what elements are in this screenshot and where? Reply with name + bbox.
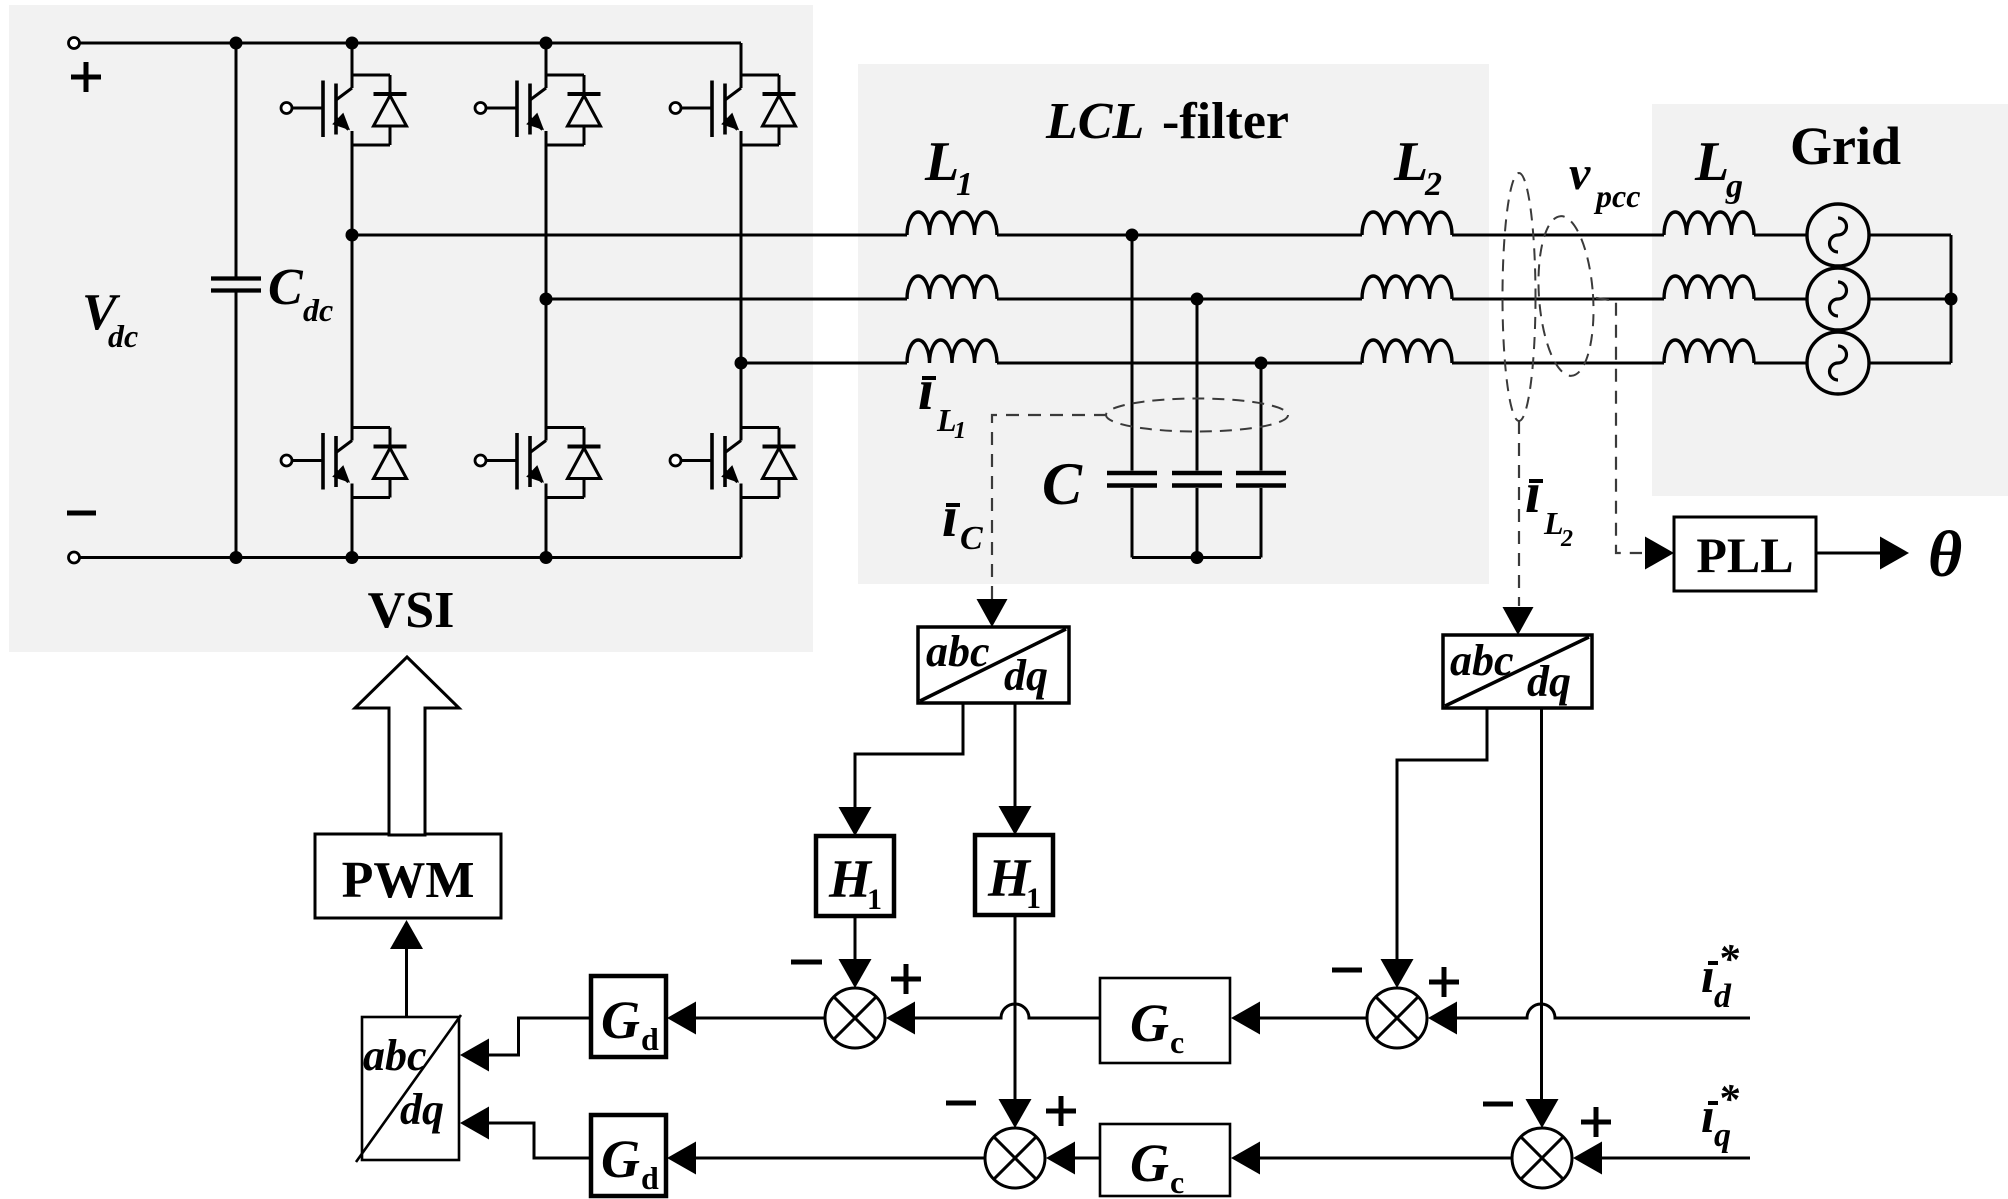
svg-text:ı: ı [942,484,958,549]
svg-text:q: q [1714,1117,1731,1154]
measurement loop iL2 (dashed ellipse) [1503,173,1536,421]
wire U2 output to S3 [1397,708,1487,959]
transistor Q3 (upper IGBT) [670,43,779,137]
node: capacitor bus junction [1191,551,1204,564]
svg-text:v: v [1569,147,1591,200]
node: leg2 bottom bus junction [540,551,553,564]
node: cap tap phase B [1191,293,1204,306]
PLL block [1674,517,1816,591]
wire H1 first to S1 [854,916,857,960]
wire grid phase B to neutral bus [1869,298,1951,301]
svg-text:c: c [1170,1164,1184,1199]
wire emitter of Q4 to bottom bus [351,484,354,558]
summing junction S3 (d-axis outer) [1367,988,1427,1048]
transistor Q4 (lower IGBT) [281,235,390,490]
DC positive terminal [69,38,80,49]
wire phase C: VSI to L1 [741,362,907,365]
svg-text:L: L [924,131,959,193]
svg-text:ı: ı [918,357,934,422]
AC source grid phase A [1807,204,1869,266]
svg-text:dq: dq [1004,651,1048,700]
minus sign [67,511,96,516]
dashed wire iL2 to abc/dq [1518,421,1520,606]
svg-text:dc: dc [303,292,333,328]
sign plus at S2 [1046,1109,1076,1114]
svg-text:1: 1 [954,418,966,444]
svg-text:G: G [601,1129,640,1189]
svg-text:abc: abc [363,1031,427,1080]
svg-text:PLL: PLL [1696,527,1793,583]
sign minus at S3 [1332,968,1362,973]
wire S3 to Gc upper [1260,1017,1367,1020]
wire phase B: L1 to L2 [997,298,1362,301]
wire phase B: L2 to Lg [1452,298,1664,301]
svg-text:abc: abc [926,627,990,676]
VSI region background [9,5,813,652]
transistor Q6 (lower IGBT) [670,363,779,490]
svg-text:-filter: -filter [1162,93,1289,150]
wire U1 output to H1 first [855,703,963,808]
inductor L2 phase C [1362,340,1452,363]
svg-text:pcc: pcc [1593,178,1640,214]
svg-text:ı: ı [1701,947,1715,1003]
svg-text:abc: abc [1450,636,1514,685]
wire S1 to Gd upper [696,1017,824,1020]
block H1 (second) [975,835,1053,915]
transistor Q5 (lower IGBT) [475,299,584,490]
wire Gc upper to S1 [915,1004,1100,1018]
diode D4 (antiparallel, lower) [352,428,407,498]
wire Q3 emitter to phase node [740,131,743,363]
LCL filter region background [858,64,1489,584]
wire H1 second to S2 [1014,915,1017,1099]
svg-text:dq: dq [400,1085,444,1134]
arrow iC into abc/dq [977,599,1008,627]
svg-text:C: C [268,259,304,316]
svg-text:c: c [1170,1024,1184,1060]
svg-text:2: 2 [1560,526,1573,552]
PWM block [315,834,501,918]
diode D3 (antiparallel, upper) [741,75,796,145]
svg-text:1: 1 [867,883,882,916]
inductor L1 phase A [907,212,997,235]
svg-text:1: 1 [1026,882,1041,915]
capacitor C phase C [1236,363,1286,558]
block H1 (first) [816,836,894,916]
wire phase A: L2 to Lg [1452,234,1664,237]
wire U1 output to H1 second [1014,703,1017,807]
svg-text:C: C [1042,451,1083,517]
AC source grid phase C [1807,332,1869,394]
node: Cdc top junction [230,37,243,50]
node: cap tap phase C [1255,357,1268,370]
svg-text:G: G [1130,1133,1169,1193]
wire grid phase C to neutral bus [1869,362,1951,365]
wire emitter of Q5 to bottom bus [545,484,548,558]
block Gc (lower) [1100,1124,1230,1196]
sign plus at S3 [1429,980,1459,985]
svg-text:LCL: LCL [1045,93,1144,150]
svg-text:C: C [960,520,983,557]
transistor Q2 (upper IGBT) [475,43,584,137]
node: cap tap phase A [1126,229,1139,242]
abc/dq block (iL2 transform) U2 [1443,635,1592,708]
wire PLL output [1816,552,1881,555]
wire id* reference line [1457,1004,1750,1018]
node: leg2 top bus junction [540,37,553,50]
svg-text:G: G [601,990,640,1050]
inductor L2 phase A [1362,212,1452,235]
wire Gc lower to S2 [1075,1157,1100,1160]
block arrow PWM to VSI [355,657,459,835]
sign plus at S4 [1581,1120,1611,1125]
arrow vpcc into PLL [1645,537,1674,570]
svg-text:2: 2 [1424,166,1442,203]
inductor L2 phase B [1362,276,1452,299]
capacitor C phase A [1107,235,1157,558]
svg-text:Grid: Grid [1790,116,1901,176]
sign minus at S2 [946,1101,976,1106]
plus sign [71,75,101,80]
node: leg1 bottom bus junction [346,551,359,564]
wire Q1 emitter to phase node [351,131,354,235]
svg-text:d: d [1714,978,1732,1015]
svg-text:θ: θ [1928,518,1962,591]
svg-text:d: d [641,1021,659,1057]
wire U2 output to S4 [1540,708,1543,1099]
node: phase A output [346,229,359,242]
Grid region background [1652,104,2008,496]
svg-text:1: 1 [956,166,973,203]
svg-text:dq: dq [1527,657,1571,706]
summing junction S1 (d-axis inner) [825,988,885,1048]
wire bottom DC bus [80,556,742,559]
wire grid neutral bus [1950,235,1953,363]
diode D5 (antiparallel, lower) [546,428,601,498]
arrow iL2 into abc/dq [1503,607,1534,635]
node: Cdc bottom junction [230,551,243,564]
wire Gd upper to U3 [489,1018,591,1055]
diode D1 (antiparallel, upper) [352,75,407,145]
wire top DC bus [80,42,742,45]
wire phase C: Lg to grid source [1754,362,1807,365]
inductor L1 phase B [907,276,997,299]
wire U3 to PWM [405,949,408,1017]
node: phase C output [735,357,748,370]
measurement loop iC (dashed ellipse around capacitor branches) [1106,399,1288,432]
block Gc (upper) [1100,978,1230,1063]
wire phase B: VSI to L1 [546,298,907,301]
wire grid phase A to neutral bus [1869,234,1951,237]
svg-text:G: G [1130,993,1169,1053]
node: grid neutral junction [1945,293,1958,306]
svg-text:L: L [1694,131,1729,193]
abc/dq block (modulation transform) U3 [356,1015,461,1162]
AC source grid phase B [1807,268,1869,330]
transistor Q1 (upper IGBT) [281,43,390,137]
wire S4 to Gc lower [1260,1157,1511,1160]
sign minus at S4 [1483,1102,1513,1107]
inductor L1 phase C [907,340,997,363]
wire Q2 emitter to phase node [545,131,548,299]
diode D2 (antiparallel, upper) [546,75,601,145]
inductor Lg phase C [1664,340,1754,363]
wire iq* reference line [1602,1157,1750,1160]
sign minus at S1 [791,960,822,965]
svg-text:L: L [1393,131,1428,193]
svg-text:PWM: PWM [342,852,475,909]
wire S2 to Gd lower [696,1157,984,1160]
capacitor C phase B [1172,299,1222,558]
wire phase B: Lg to grid source [1754,298,1807,301]
wire emitter of Q6 to bottom bus [740,484,743,558]
arrow PLL output [1880,537,1909,570]
abc/dq block (iC transform) U1 [918,627,1069,703]
summing junction S4 (q-axis outer) [1512,1128,1572,1188]
DC negative terminal [69,552,80,563]
diode D6 (antiparallel, lower) [741,428,796,498]
summing junction S2 (q-axis inner) [985,1128,1045,1188]
svg-text:g: g [1725,168,1743,205]
dashed wire iC to abc/dq [992,415,1107,600]
block Gd (lower) [591,1115,666,1196]
svg-text:*: * [1718,937,1740,983]
wire phase C: L2 to Lg [1452,362,1664,365]
capacitor Cdc [235,43,238,277]
wire phase A: VSI to L1 [352,234,907,237]
inductor Lg phase A [1664,212,1754,235]
wire capacitor common bus [1132,556,1261,559]
inductor Lg phase B [1664,276,1754,299]
wire phase A: L1 to L2 [997,234,1362,237]
node: leg1 top bus junction [346,37,359,50]
svg-text:VSI: VSI [368,582,455,639]
block Gd (upper) [591,976,666,1057]
measurement probe vpcc (dashed loop) [1533,214,1598,377]
sign plus at S1 [891,977,921,982]
dashed wire vpcc to PLL [1596,298,1642,553]
svg-text:d: d [641,1160,659,1196]
wire Gd lower to U3 [489,1123,591,1158]
wire phase C: L1 to L2 [997,362,1362,365]
wire phase A: Lg to grid source [1754,234,1807,237]
svg-text:dc: dc [108,318,138,354]
svg-text:ı: ı [1701,1087,1715,1143]
node: phase B output [540,293,553,306]
svg-text:ı: ı [1525,460,1541,525]
